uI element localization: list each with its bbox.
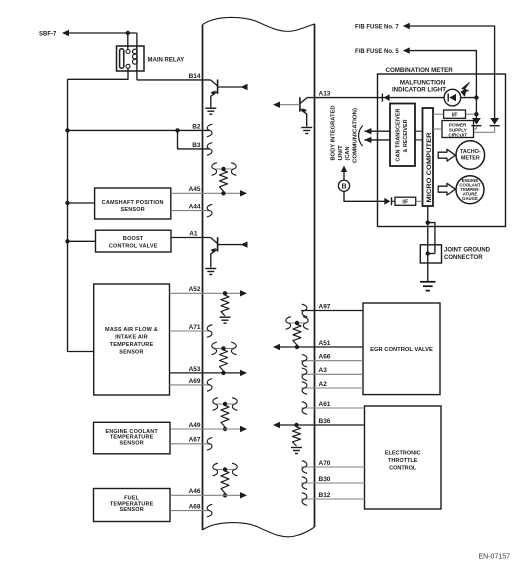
arrow to fuse No.5 [403, 47, 410, 53]
wire B2 from bus [68, 129, 210, 131]
label joint ground connector [444, 247, 491, 260]
svg-text:I/F: I/F [452, 112, 458, 118]
resistor R3 pull-up A53 [220, 350, 228, 371]
label pin A46 [189, 488, 201, 495]
label boost control valve [109, 236, 158, 249]
resistor R4 pull-up A49 [221, 406, 229, 428]
node relay feed junction [126, 31, 130, 35]
diode D4 meter input [384, 197, 391, 205]
arrow A46 internal [240, 492, 247, 498]
svg-text:SENSOR: SENSOR [119, 507, 143, 513]
svg-text:SENSOR: SENSOR [120, 207, 144, 213]
svg-text:A69: A69 [189, 378, 201, 385]
label malfunction indicator light [392, 80, 446, 94]
svg-text:MICRO COMPUTER: MICRO COMPUTER [427, 132, 433, 203]
svg-text:CONTROL: CONTROL [389, 466, 417, 472]
svg-text:A68: A68 [189, 504, 201, 511]
svg-text:EN-07157: EN-07157 [479, 554, 511, 561]
node IF-diode junction [474, 112, 478, 116]
ECM top torn edge [203, 17, 315, 31]
label pin B3 [192, 142, 201, 149]
svg-text:BOOST: BOOST [123, 236, 144, 242]
wire micro computer to PSC [433, 128, 442, 130]
resistor R2 A52 load [221, 295, 229, 316]
svg-text:A52: A52 [189, 286, 201, 293]
wire A97 EGR [301, 310, 363, 312]
arrow Q2 collector [241, 241, 248, 247]
node R6-A51 junction [295, 345, 299, 349]
wire fuse No.5 feed [410, 51, 477, 98]
svg-text:A2: A2 [319, 381, 328, 388]
svg-text:A13: A13 [319, 91, 331, 98]
svg-text:INTAKE AIR: INTAKE AIR [115, 334, 148, 340]
label pin B2 [192, 123, 201, 130]
ground Q2 emitter [205, 269, 216, 275]
ground below JGC [420, 282, 436, 291]
ECM left boundary wire [202, 25, 204, 530]
label pin A71 [189, 324, 201, 331]
wire circled B to BIU [343, 172, 345, 181]
label mass air flow sensor [105, 327, 158, 356]
svg-text:THROTTLE: THROTTLE [388, 458, 418, 464]
svg-text:INDICATOR LIGHT: INDICATOR LIGHT [392, 86, 446, 93]
node bus-B2 junction [65, 128, 69, 132]
break symbol at pin A44 [207, 204, 212, 217]
wire A66 EGR coil 1 [301, 360, 363, 362]
svg-text:TACHO-: TACHO- [460, 149, 481, 155]
svg-text:A97: A97 [319, 303, 331, 310]
svg-text:COMMUNICATION): COMMUNICATION) [352, 108, 358, 163]
diode D1 on MIL line [382, 94, 389, 102]
svg-text:& RECEIVER: & RECEIVER [403, 120, 409, 153]
break symbol at pin A97 [302, 304, 307, 317]
electronic throttle control box [365, 406, 442, 509]
wire A44 camshaft return [171, 210, 210, 212]
wire B36 throttle power [280, 424, 365, 426]
label CAN transceiver [395, 109, 409, 162]
wire ground main drop [427, 223, 429, 263]
arrow A45 internal [240, 190, 247, 196]
svg-text:SBF-7: SBF-7 [39, 32, 57, 38]
node bracket-A53 [221, 346, 225, 350]
wire micro computer ground lead [427, 206, 429, 223]
engine coolant temperature gauge [456, 176, 484, 204]
main relay terminal pin 1 [126, 50, 130, 54]
break symbol at pin A61 [302, 402, 307, 415]
wire meter input from circled B [378, 200, 385, 202]
node meter ground junction [426, 220, 430, 224]
label pin A66 [319, 354, 331, 361]
svg-text:A51: A51 [319, 340, 331, 347]
resistor R5 pull-up A46 [221, 471, 229, 493]
label pin A52 [189, 286, 201, 293]
wire fuse5 junction to IF [475, 98, 477, 115]
svg-text:A45: A45 [189, 186, 201, 193]
boost control valve box [96, 230, 172, 252]
label F/B fuse No.5 [355, 49, 399, 55]
lightning failure symbol [461, 82, 469, 96]
wire A13 MIL drive [307, 97, 378, 99]
power supply circuit box [442, 121, 474, 138]
svg-text:A67: A67 [189, 437, 201, 444]
main relay contact bar [120, 49, 124, 68]
wire B14 relay coil to ECM [137, 79, 211, 81]
svg-text:JOINT GROUND: JOINT GROUND [444, 247, 491, 253]
label pin A49 [189, 422, 201, 429]
svg-text:(CAN: (CAN [345, 147, 351, 161]
break symbol at pin A66 [302, 354, 307, 367]
wire IF lower to micro computer [416, 200, 423, 202]
wire micro computer to IF [433, 113, 444, 115]
svg-text:CAN TRANSCEIVER: CAN TRANSCEIVER [395, 109, 401, 162]
shield bracket above A49 [213, 398, 238, 411]
CAN transceiver and receiver box [390, 104, 415, 167]
wire A1 boost drive [171, 237, 211, 239]
svg-text:MAIN RELAY: MAIN RELAY [148, 58, 185, 64]
label fuel temperature sensor [110, 495, 154, 513]
svg-text:B: B [341, 183, 346, 190]
tachometer gauge [456, 141, 485, 170]
IF interface box upper [444, 110, 466, 118]
svg-text:CONTROL VALVE: CONTROL VALVE [109, 243, 158, 249]
label pin A3 [319, 367, 328, 374]
label combination meter [386, 67, 454, 74]
wire fuse No.7 feed [410, 26, 495, 118]
svg-text:CAMSHAFT POSITION: CAMSHAFT POSITION [102, 200, 164, 206]
label MAIN RELAY [148, 58, 185, 64]
arrow CAN high [364, 128, 371, 134]
wire D3 to power supply circuit [474, 126, 495, 133]
svg-text:METER: METER [461, 155, 480, 161]
arrow Q1 collector [241, 84, 248, 90]
node bus-boost junction [65, 239, 69, 243]
wire A49 coolant temp signal [170, 428, 241, 430]
label body integrated unit [331, 106, 359, 164]
ECM bottom torn edge [203, 523, 315, 537]
wire B3 branch [178, 130, 210, 149]
wire A71 MAF signal [169, 330, 209, 332]
wire ground branch right [428, 223, 435, 254]
svg-text:CONNECTOR: CONNECTOR [444, 255, 483, 261]
wire D4 to IF lower [392, 200, 396, 202]
svg-text:F/B FUSE No. 5: F/B FUSE No. 5 [355, 49, 399, 55]
break symbol at pin A71 [207, 325, 212, 338]
svg-text:TEMPERATURE: TEMPERATURE [110, 342, 154, 348]
resistor R7 B36 load [293, 427, 301, 446]
label pin A53 [189, 366, 201, 373]
shield bracket above A51 [286, 317, 309, 330]
wire A69 sensor ground [169, 384, 209, 386]
label camshaft position sensor [102, 200, 164, 213]
svg-text:A3: A3 [319, 367, 328, 374]
svg-text:COMBINATION METER: COMBINATION METER [386, 67, 454, 74]
node bracket-A51 [295, 321, 299, 325]
diode D2 power [471, 118, 481, 126]
node R1-A45 junction [221, 191, 225, 195]
node A52 junction [223, 291, 227, 295]
fuel temperature sensor box [94, 489, 171, 522]
svg-text:B36: B36 [319, 418, 331, 425]
wire bus to camshaft sensor [68, 202, 95, 204]
wire IF to fuse5 node [466, 113, 477, 115]
break symbol at pin B2 [207, 124, 212, 137]
wire MIL lamp feed [378, 97, 477, 99]
svg-text:CIRCUIT: CIRCUIT [448, 132, 467, 137]
arrow to fuse No.7 [403, 23, 410, 29]
wire D2 to power supply circuit [474, 126, 477, 129]
svg-text:A49: A49 [189, 422, 201, 429]
node B2-B3 branch [175, 128, 179, 132]
label pin A44 [189, 204, 201, 211]
svg-text:B2: B2 [192, 123, 201, 130]
wire CAN low [364, 139, 390, 141]
wire B30 throttle [301, 482, 365, 484]
resistor R1 pull-up A45 [220, 171, 228, 192]
shield bracket above A53 [212, 342, 237, 355]
label pin A1 [189, 230, 198, 237]
label electronic throttle control [385, 451, 421, 472]
wire A61 throttle [301, 407, 365, 409]
node joint ground junction [426, 251, 430, 255]
node B36-R7 junction [294, 423, 298, 427]
transistor Q3 MIL driver [280, 97, 307, 126]
label pin A69 [189, 378, 201, 385]
wire A3 EGR coil 2 [301, 373, 363, 375]
svg-text:UNIT: UNIT [338, 144, 344, 160]
break symbol at pin A67 [207, 438, 212, 451]
break symbol at pin A70 [302, 461, 307, 474]
wire joint loop [428, 253, 435, 255]
label pin A67 [189, 437, 201, 444]
wire CAN box to micro computer upper [415, 130, 423, 132]
label power supply circuit [448, 122, 467, 137]
diode D3 power [490, 118, 500, 126]
svg-text:B3: B3 [192, 142, 201, 149]
resistor R6 pull-up A51 [293, 325, 301, 346]
wire JGC to ground [427, 263, 429, 281]
wire A2 EGR coil 3 [301, 387, 363, 389]
label pin B14 [189, 73, 201, 80]
svg-text:A66: A66 [319, 354, 331, 361]
label IF upper [452, 112, 458, 118]
label pin A70 [319, 460, 331, 467]
arrow A52 internal [240, 290, 247, 296]
svg-text:A44: A44 [189, 204, 201, 211]
svg-text:B12: B12 [319, 492, 331, 499]
label EGR control valve [370, 347, 433, 353]
wire relay contact to bus [68, 68, 129, 79]
svg-text:ELECTRONIC: ELECTRONIC [385, 451, 421, 457]
wire circled B to meter [344, 191, 378, 201]
svg-text:B14: B14 [189, 73, 201, 80]
label pin A51 [319, 340, 331, 347]
svg-text:B30: B30 [319, 476, 331, 483]
shield bracket above A46 [213, 463, 238, 476]
ground below R2 [220, 317, 231, 323]
node bracket-A46 [223, 467, 227, 471]
label pin A68 [189, 504, 201, 511]
ground Q3 emitter [301, 128, 312, 134]
label IF lower [402, 200, 408, 206]
label pin A13 [319, 91, 331, 98]
mass air flow and intake air temperature sensor box [94, 284, 170, 395]
arrow to SBF-7 [62, 30, 69, 36]
break symbol at pin B12 [302, 493, 307, 506]
arrow A49 internal [240, 426, 247, 432]
node R5-A46 junction [223, 493, 227, 497]
wire A46 fuel temp signal [170, 494, 241, 496]
svg-text:A61: A61 [319, 401, 331, 408]
twisted pair arc [359, 126, 363, 147]
svg-text:SENSOR: SENSOR [119, 349, 143, 355]
label SBF-7 [39, 32, 57, 38]
break symbol at pin A3 [302, 368, 307, 381]
camshaft position sensor box [95, 188, 171, 219]
ground below R7 [291, 448, 302, 454]
svg-text:A46: A46 [189, 488, 201, 495]
node R4-A49 junction [223, 427, 227, 431]
wire B12 throttle [301, 498, 365, 500]
svg-text:I/F: I/F [402, 200, 408, 206]
arrow Q3 base [273, 102, 280, 108]
wire CAN box to micro computer lower [415, 139, 423, 141]
node bus-camshaft junction [65, 201, 69, 205]
wire coil drop [136, 33, 138, 48]
wire A53 intake air temp [169, 372, 241, 374]
wire A45 camshaft signal [171, 192, 242, 194]
wire A68 sensor ground [170, 510, 209, 512]
main relay box [117, 46, 145, 71]
label pin B30 [319, 476, 331, 483]
label micro computer [427, 132, 433, 203]
arrow B36 internal [273, 422, 280, 428]
break symbol at pin A68 [207, 504, 212, 517]
node bracket-A45 [221, 167, 225, 171]
break symbol at pin B3 [207, 143, 212, 156]
svg-text:A53: A53 [189, 366, 201, 373]
wire A67 sensor ground [170, 443, 209, 445]
node B circled connector [338, 180, 349, 191]
label pin A45 [189, 186, 201, 193]
engine coolant temperature sensor box [94, 422, 171, 454]
wire bus to boost valve [68, 240, 96, 242]
wire CAN high [364, 130, 390, 132]
wire A70 throttle [301, 466, 365, 468]
micro computer box [423, 108, 434, 206]
ECM right boundary wire [314, 24, 316, 527]
arrow A51 internal [273, 344, 280, 350]
ground Q1 emitter [205, 108, 216, 114]
svg-text:A1: A1 [189, 230, 198, 237]
break symbol at pin A69 [207, 379, 212, 392]
arrow A53 internal [240, 370, 247, 376]
node MIL-fuse5 junction [474, 95, 478, 99]
combination meter box [378, 74, 506, 227]
label pin B36 [319, 418, 331, 425]
label F/B fuse No.7 [355, 25, 399, 31]
svg-text:F/B FUSE No. 7: F/B FUSE No. 7 [355, 25, 399, 31]
node R3-A53 junction [221, 371, 225, 375]
svg-text:GAUGE: GAUGE [462, 196, 478, 201]
lamp MIL indicator [444, 89, 461, 106]
svg-text:MASS AIR FLOW &: MASS AIR FLOW & [105, 327, 158, 333]
wire A51 EGR feedback [280, 346, 363, 348]
block arrow to tachometer [438, 149, 455, 161]
joint ground connector box [420, 245, 441, 263]
main relay terminal pin 2 [126, 64, 130, 68]
wire left supply bus [68, 79, 95, 351]
wire A52 MAF power [169, 292, 241, 294]
node bracket-A49 [223, 402, 227, 406]
svg-text:SENSOR: SENSOR [119, 441, 143, 447]
wire SBF-7 feed [69, 32, 137, 34]
transistor Q1 main relay driver [211, 80, 242, 108]
arrow CAN low [364, 137, 371, 143]
label EN-07157 [479, 554, 511, 561]
label pin A61 [319, 401, 331, 408]
break symbol at pin B30 [302, 477, 307, 490]
arrow to body integrated unit [341, 166, 347, 173]
label engine coolant temperature sensor [105, 429, 158, 447]
svg-text:BODY INTEGRATED: BODY INTEGRATED [331, 106, 337, 161]
IF interface box lower [395, 197, 416, 205]
svg-text:A70: A70 [319, 460, 331, 467]
label pin A2 [319, 381, 328, 388]
wire contact drop [127, 33, 129, 50]
shield bracket above A45 [212, 163, 237, 176]
label pin B12 [319, 492, 331, 499]
svg-text:A71: A71 [189, 324, 201, 331]
svg-text:EGR CONTROL VALVE: EGR CONTROL VALVE [370, 347, 433, 353]
wire IF node to D2 [475, 114, 477, 118]
main relay coil [133, 46, 138, 80]
label pin A97 [319, 303, 331, 310]
transistor Q2 boost valve driver [211, 237, 242, 267]
EGR control valve box [363, 303, 440, 395]
block arrow to coolant gauge [438, 183, 455, 195]
break symbol at pin A2 [302, 382, 307, 395]
